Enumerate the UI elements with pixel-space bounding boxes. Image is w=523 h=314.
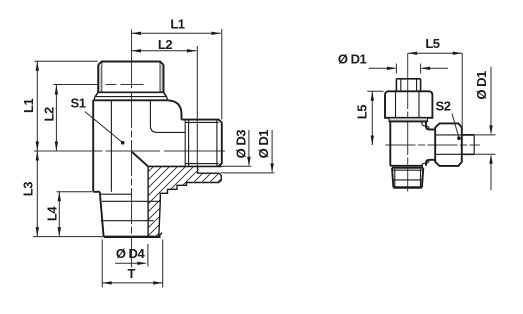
L2 vertical dimension (left) [54,85,99,152]
side stub (right view) [462,135,474,154]
bottom stud (right view) [392,168,423,188]
L5 left dimension (right view) [367,91,383,145]
svg-text:L2: L2 [42,107,57,121]
side nut (right view) [435,123,462,165]
centerline horizontal (left view side port axis) [34,150,228,152]
L4 vertical dimension (left) [57,192,93,237]
svg-text:S2: S2 [436,98,451,113]
svg-text:T: T [127,266,135,281]
L1 horizontal dimension [132,29,222,120]
centerline horizontal (right view) [386,144,481,146]
flare / washer below stud [93,92,168,100]
centerline vertical (left view) [131,30,133,268]
body (right view) [390,121,435,165]
side port (left view) [148,120,222,167]
svg-text:Ø D1: Ø D1 [256,130,271,159]
body block (left view) [93,100,185,192]
top stud shading [99,65,102,92]
top nut (right view) [385,91,432,121]
L1 vertical dimension (left) [34,61,98,151]
svg-text:L3: L3 [21,182,36,196]
svg-text:L2: L2 [158,37,172,52]
hatch main body section [148,166,221,236]
svg-text:S1: S1 [71,96,86,111]
svg-text:L4: L4 [44,206,59,221]
top stud (left view) [98,62,163,93]
L2 horizontal dimension [132,46,198,166]
L5 top dimension [408,53,463,130]
svg-text:Ø D4: Ø D4 [116,246,146,261]
flange under side port outline [148,166,221,236]
svg-text:Ø D3: Ø D3 [233,130,248,159]
centerline dash in top stud [105,84,143,86]
svg-text:Ø D1: Ø D1 [474,71,489,100]
svg-text:L5: L5 [354,105,369,119]
svg-text:L5: L5 [425,36,439,51]
top stub (right view) [396,79,420,91]
L3 vertical dimension (left) [33,151,103,237]
elbow bore diagonal [132,152,148,167]
svg-text:Ø D1: Ø D1 [338,52,367,67]
svg-text:L1: L1 [21,99,36,113]
centerline vertical (right view) [407,53,409,191]
svg-text:L1: L1 [170,17,184,32]
bottom port (left view, tapered) [100,192,162,237]
